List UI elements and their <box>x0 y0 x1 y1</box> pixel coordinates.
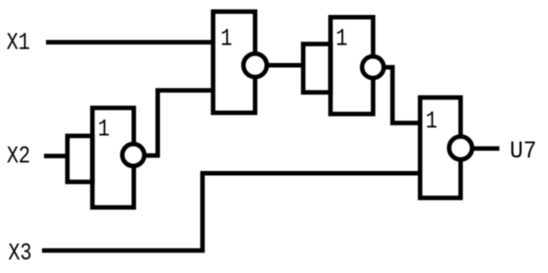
svg-text:U7: U7 <box>510 139 537 166</box>
svg-text:X1: X1 <box>6 29 30 56</box>
svg-text:1: 1 <box>98 116 110 143</box>
svg-text:X2: X2 <box>7 143 31 170</box>
svg-text:1: 1 <box>426 108 438 135</box>
svg-text:1: 1 <box>336 25 348 52</box>
svg-text:X3: X3 <box>8 240 32 267</box>
svg-text:1: 1 <box>220 25 232 52</box>
